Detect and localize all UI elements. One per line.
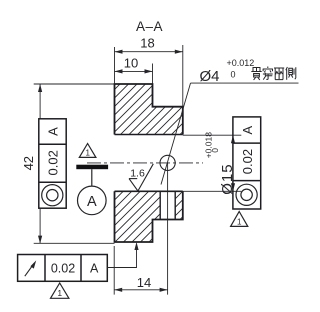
right feature control frame (concentricity 0.02 A) xyxy=(233,117,261,209)
cross hole axis extension line xyxy=(167,163,169,295)
svg-text:+0.012: +0.012 xyxy=(227,58,255,68)
svg-text:42: 42 xyxy=(21,156,36,170)
centerline axis xyxy=(87,162,203,164)
svg-text:+0.018: +0.018 xyxy=(204,132,214,159)
flag note triangle 1 (bottom) xyxy=(51,283,69,298)
bottom frame leader with arrow xyxy=(107,244,136,268)
dimension 18 line with arrows xyxy=(115,51,183,53)
svg-text:1.6: 1.6 xyxy=(130,167,145,179)
svg-text:14: 14 xyxy=(137,275,151,290)
part outline lower xyxy=(115,191,183,242)
flag note triangle 1 (right) xyxy=(231,212,248,227)
dimension 14 line with arrows xyxy=(114,289,167,291)
svg-text:A: A xyxy=(90,262,99,276)
svg-text:Ø4: Ø4 xyxy=(200,68,220,85)
dimension 18 extension lines xyxy=(114,47,116,84)
leader phi4 diagonal xyxy=(161,83,191,184)
dimension 42 extension lines xyxy=(34,83,115,85)
part outline upper xyxy=(115,84,183,135)
svg-text:0.02: 0.02 xyxy=(240,149,255,174)
dimension 10 line with arrows xyxy=(115,70,153,72)
dimension phi15 extension lines xyxy=(183,134,242,136)
svg-text:A: A xyxy=(240,126,255,135)
svg-text:0.02: 0.02 xyxy=(51,262,75,276)
svg-text:0: 0 xyxy=(231,70,236,80)
hatched flange lower-left section xyxy=(115,191,183,242)
char chuan xyxy=(263,67,273,80)
dimension 42 line with arrows xyxy=(39,84,41,119)
cross hole wall edges xyxy=(159,191,161,219)
datum A circle xyxy=(78,186,107,215)
char guan xyxy=(251,68,261,81)
dimension phi15 line with arrows xyxy=(232,135,234,191)
right frame concentricity symbol xyxy=(236,184,257,205)
hatched flange upper section xyxy=(115,84,183,135)
svg-text:A–A: A–A xyxy=(136,19,163,34)
note text guan-chuan-liang-ce (through both sides), drawn strokes xyxy=(251,67,295,81)
svg-text:0: 0 xyxy=(210,148,220,153)
svg-text:1: 1 xyxy=(237,217,242,226)
flag note triangle 1 (left) xyxy=(79,144,96,158)
bore bottom edge xyxy=(115,190,183,192)
leader phi4 underline xyxy=(191,82,299,84)
svg-text:A: A xyxy=(45,127,60,136)
char ce xyxy=(286,67,296,80)
circular runout symbol arrow xyxy=(25,263,34,276)
left feature control frame (concentricity 0.02 A) xyxy=(39,119,66,208)
bore top edge xyxy=(115,134,183,136)
datum A thick bar xyxy=(76,165,108,170)
svg-text:10: 10 xyxy=(124,55,138,70)
svg-text:1: 1 xyxy=(85,149,90,158)
cross hole circle phi4 xyxy=(160,155,175,170)
char liang xyxy=(274,68,284,80)
datum A stem xyxy=(91,169,93,186)
svg-text:18: 18 xyxy=(140,36,154,51)
left frame concentricity symbol xyxy=(42,185,63,206)
svg-text:0.02: 0.02 xyxy=(45,150,60,175)
svg-text:A: A xyxy=(87,194,97,210)
svg-text:1: 1 xyxy=(57,288,62,298)
dimension 14 extension line left xyxy=(113,246,115,295)
dimension 10 extension line xyxy=(152,64,154,85)
bottom feature control frame (circular runout 0.02 A) xyxy=(18,255,108,282)
roughness symbol 1.6 on bore xyxy=(129,164,153,191)
